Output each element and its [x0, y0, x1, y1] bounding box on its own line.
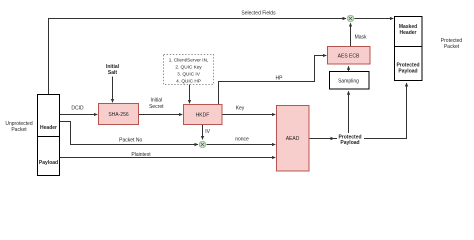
- svg-text:AEAD: AEAD: [286, 136, 300, 142]
- wire: Sampling to AES ECB: [348, 66, 350, 71]
- svg-text:Key: Key: [236, 106, 245, 112]
- wire: Initial Secret from SHA-256 to HKDF: [139, 114, 182, 116]
- wire: nonce from XOR2 to AEAD: [207, 144, 276, 146]
- label Masked Header: [399, 24, 417, 36]
- svg-text:HKDF: HKDF: [196, 112, 210, 118]
- svg-text:3. QUIC IV: 3. QUIC IV: [177, 72, 201, 77]
- svg-text:Mask: Mask: [355, 35, 367, 41]
- svg-text:IV: IV: [205, 129, 210, 135]
- XOR node X1 (mask applied to header fields): [347, 15, 354, 22]
- label Protected Payload (on wire, white background): [337, 133, 364, 146]
- svg-text:Payload: Payload: [340, 140, 359, 146]
- unprotected packet box (Header/Payload): [38, 95, 60, 176]
- svg-text:Payload: Payload: [398, 69, 417, 75]
- svg-text:nonce: nonce: [235, 137, 249, 143]
- wire: sampling tap from protected payload wire: [348, 91, 350, 138]
- label Unprotected Packet: [5, 121, 32, 133]
- svg-text:Plaintext: Plaintext: [131, 152, 151, 158]
- arrowhead on AEAD output at label: [331, 137, 335, 140]
- svg-text:Payload: Payload: [39, 160, 58, 166]
- svg-text:2. QUIC Key: 2. QUIC Key: [175, 65, 202, 70]
- label Initial Secret: [149, 98, 164, 110]
- block Sampling: [330, 72, 370, 90]
- wire: IV from HKDF bottom into XOR2: [202, 125, 204, 140]
- label Initial Salt: [106, 64, 120, 76]
- svg-text:Initial: Initial: [150, 98, 162, 104]
- XOR node X2 (IV xor packet number): [199, 141, 206, 148]
- svg-text:Packet No: Packet No: [119, 137, 142, 143]
- wire: Mask from AES ECB up to XOR1: [350, 23, 352, 46]
- svg-text:HP: HP: [276, 75, 284, 81]
- label Protected Packet: [441, 38, 463, 50]
- svg-text:Header: Header: [40, 125, 57, 131]
- block AEAD: [277, 106, 310, 172]
- wire: XOR1 to Masked Header box: [354, 18, 393, 20]
- svg-text:Secret: Secret: [149, 104, 164, 110]
- wire: Initial Salt arrow into SHA-256 top: [112, 77, 114, 103]
- svg-text:SHA-256: SHA-256: [108, 112, 129, 118]
- svg-text:Selected Fields: Selected Fields: [241, 10, 276, 16]
- wire: Selected Fields line from Header top to XOR1: [49, 19, 347, 95]
- dashed derived-keys list box: [164, 55, 214, 85]
- svg-text:Sampling: Sampling: [338, 78, 359, 84]
- block SHA-256: [99, 104, 139, 125]
- block HKDF: [184, 105, 223, 125]
- svg-text:Header: Header: [400, 30, 417, 36]
- wire: HP from HKDF top to AES ECB: [219, 56, 327, 105]
- svg-text:AES ECB: AES ECB: [338, 53, 360, 59]
- svg-text:1. Client/Server IN,: 1. Client/Server IN,: [169, 58, 209, 63]
- svg-text:4. QUIC HP: 4. QUIC HP: [176, 79, 201, 84]
- svg-text:Packet: Packet: [444, 44, 460, 50]
- svg-text:Salt: Salt: [108, 70, 118, 76]
- protected packet box (Masked Header/Protected Payload): [395, 17, 423, 81]
- wire: Key from HKDF to AEAD: [222, 114, 275, 116]
- wire: DCID from Header to SHA-256: [60, 114, 98, 116]
- svg-text:DCID: DCID: [71, 106, 84, 112]
- svg-text:Packet: Packet: [11, 127, 27, 133]
- label Protected Payload (box cell): [396, 63, 419, 75]
- wire: AEAD output to Protected Payload cell: [309, 83, 407, 139]
- wire: Plaintext from Payload to AEAD: [60, 157, 276, 159]
- wire: Packet No from Header to XOR2: [60, 122, 199, 145]
- wire: dashed list box down into HKDF top: [189, 85, 191, 104]
- block AES ECB: [328, 47, 371, 65]
